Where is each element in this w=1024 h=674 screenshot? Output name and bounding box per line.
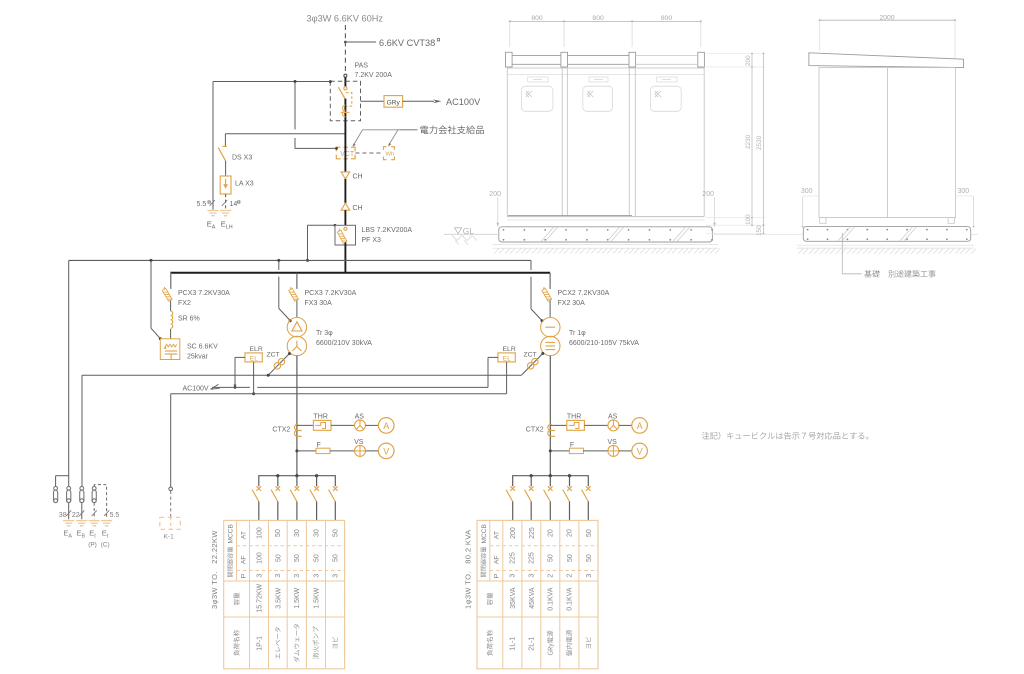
wire: to F R — [550, 450, 569, 452]
wire: to F L — [297, 450, 316, 452]
svg-text:5.5: 5.5 — [110, 512, 120, 519]
leader arrow to Wh — [389, 130, 398, 144]
svg-text:MCCB: MCCB — [481, 523, 488, 543]
junction on header — [530, 474, 533, 477]
svg-text:3: 3 — [256, 574, 263, 578]
svg-text:3φ3W TO. 22.22KW: 3φ3W TO. 22.22KW — [210, 530, 219, 609]
junction dots on thin bus — [150, 259, 153, 262]
wire: breaker to panel table — [530, 502, 532, 521]
elevation side: sloped roof — [809, 53, 964, 68]
svg-text:800: 800 — [531, 15, 543, 22]
svg-text:3: 3 — [529, 574, 536, 578]
svg-text:3: 3 — [275, 574, 282, 578]
wire: line C left riser to K1 — [170, 394, 172, 487]
wire: Tr1 secondary riser — [549, 356, 551, 476]
wire: reactor to SC — [170, 329, 172, 339]
svg-text:100: 100 — [256, 552, 263, 564]
table row load names — [487, 630, 493, 656]
svg-text:225: 225 — [510, 552, 517, 564]
svg-text:AC100V: AC100V — [183, 385, 209, 392]
elevation front: right dimension column — [751, 54, 753, 226]
svg-text:SR 6%: SR 6% — [178, 316, 200, 323]
breaker MCCB 5 — [333, 486, 338, 491]
elevation front: top dimension 800x3 — [510, 20, 701, 22]
tick and label 14sq — [222, 200, 227, 206]
wire: breaker to panel table — [296, 502, 298, 521]
relay GRy box — [384, 96, 403, 108]
svg-text:1.5KW: 1.5KW — [294, 587, 301, 608]
wire: VS to V R — [619, 450, 632, 452]
elevation front: roof rail and lifting posts — [506, 52, 513, 67]
elevation side: cabinet body — [819, 68, 956, 218]
svg-text:LBS 7.2KV200A: LBS 7.2KV200A — [362, 227, 413, 234]
wire: breaker to panel table — [258, 502, 260, 521]
svg-text:PF X3: PF X3 — [362, 237, 382, 244]
table row capacity — [487, 593, 493, 606]
ground EtP — [89, 520, 100, 522]
svg-text:25kvar: 25kvar — [187, 353, 209, 360]
switch LBS box — [335, 225, 356, 245]
svg-text:K-1: K-1 — [164, 534, 175, 541]
wire: DS drop — [224, 134, 226, 147]
elevation front: GL line and marker — [444, 233, 499, 235]
svg-text:ZCT: ZCT — [524, 352, 537, 359]
svg-text:50: 50 — [275, 529, 282, 537]
svg-text:5.5: 5.5 — [197, 201, 207, 208]
svg-text:PAS: PAS — [355, 63, 369, 70]
wire: earth line A left riser to EB terminal — [81, 375, 83, 486]
svg-text:3: 3 — [332, 574, 339, 578]
wire: EA earth riser — [212, 82, 214, 210]
svg-text:SC 6.6KV: SC 6.6KV — [187, 344, 218, 351]
elevation front: door windows — [521, 86, 553, 111]
wire: VS to V L — [366, 450, 379, 452]
svg-text:3.5KW: 3.5KW — [275, 587, 282, 608]
transformer Tr 1phi secondary circle (3-wire) — [541, 336, 560, 355]
wire: SC second feed from thin bus — [150, 260, 152, 328]
wire: SC feeder from main bus — [170, 272, 172, 289]
wire: branch to spare terminal — [56, 475, 69, 477]
svg-text:A: A — [68, 533, 72, 539]
svg-text:2: 2 — [548, 574, 555, 578]
wire: LA earth (dashed) — [225, 194, 227, 210]
junction on header — [549, 474, 552, 477]
svg-text:LH: LH — [226, 224, 233, 230]
breaker MCCB 2 — [276, 486, 281, 491]
table header MCCB rating — [227, 547, 233, 577]
svg-text:FX3 30A: FX3 30A — [305, 300, 333, 307]
zct ZCT left — [278, 359, 284, 365]
fuse PCX3 FX2 — [161, 287, 172, 302]
svg-text:3φ3W 6.6KV 60Hz: 3φ3W 6.6KV 60Hz — [307, 14, 384, 24]
tick on EtC branch 5.5sq — [104, 510, 109, 516]
wire: F to VS L — [330, 450, 355, 452]
svg-text:1φ3W TO. 80.2 KVA: 1φ3W TO. 80.2 KVA — [463, 529, 472, 609]
ground ELH — [220, 210, 231, 212]
note: certification text — [702, 432, 869, 440]
svg-text:50: 50 — [313, 554, 320, 562]
svg-text:800: 800 — [661, 15, 673, 22]
junction at VCT input — [335, 147, 338, 150]
wire: DS to LA — [225, 161, 227, 176]
wire: DS branch line — [225, 133, 345, 135]
svg-text:6600/210V 30kVA: 6600/210V 30kVA — [316, 340, 372, 347]
svg-text:14: 14 — [230, 201, 238, 208]
junction on header — [295, 474, 298, 477]
svg-text:THR: THR — [314, 414, 328, 421]
svg-text:200: 200 — [745, 55, 752, 66]
wire: T3 to ground EB 22sq — [81, 503, 83, 520]
transformer Tr 3phi primary circle (delta) — [287, 318, 306, 337]
bus: main 6.6kV bus (thick) — [171, 272, 550, 274]
svg-text:(C): (C) — [101, 542, 110, 549]
capacitor SC 6.6KV 25kvar — [160, 339, 180, 360]
cable head CH (down) — [341, 172, 350, 179]
wire: ELR right bottom to K1 line — [506, 362, 508, 394]
wire: Tr1 fused feed from main bus — [549, 273, 551, 289]
svg-text:3: 3 — [294, 574, 301, 578]
svg-text:AT: AT — [240, 531, 247, 539]
svg-text:35KVA: 35KVA — [510, 587, 517, 609]
svg-text:A: A — [637, 421, 643, 431]
svg-text:MCCB: MCCB — [228, 523, 235, 543]
svg-text:225: 225 — [529, 527, 536, 539]
breaker MCCB 3 — [548, 486, 553, 491]
wire: incoming overhead line (dashed) — [344, 25, 346, 74]
svg-text:Wh: Wh — [386, 151, 395, 157]
junction on header — [276, 474, 279, 477]
svg-text:PCX3 7.2KV30A: PCX3 7.2KV30A — [178, 290, 230, 297]
svg-text:LA X3: LA X3 — [235, 181, 254, 188]
wire: breaker to panel table — [512, 502, 514, 521]
svg-text:7.2KV 200A: 7.2KV 200A — [355, 72, 393, 79]
transformer Tr 1phi primary circle — [541, 318, 560, 337]
svg-text:AT: AT — [494, 531, 501, 539]
wire: earth link from EA riser to PAS box — [213, 81, 330, 83]
ground EB (22sq) — [76, 520, 87, 522]
wire: MCCB header bus — [259, 476, 336, 487]
svg-text:2230: 2230 — [745, 134, 752, 149]
ground EtC (5.5sq) — [101, 520, 112, 522]
svg-text:200: 200 — [489, 191, 501, 198]
junction on earth link — [294, 80, 297, 83]
svg-text:1.5KW: 1.5KW — [313, 587, 320, 608]
svg-text:CTX2: CTX2 — [526, 427, 544, 434]
svg-text:50: 50 — [586, 554, 593, 562]
meter Wh box (dashed link) — [355, 152, 383, 154]
terminal T4 Et — [92, 486, 96, 490]
switch PAS blade — [338, 87, 345, 98]
wire: Tr3 fused feed from main bus — [296, 273, 298, 289]
svg-text:6600/210-105V 75kVA: 6600/210-105V 75kVA — [569, 340, 639, 347]
wire: Tr3 primary from thin bus (jumps thick bus) — [278, 260, 280, 270]
svg-text:2530: 2530 — [756, 135, 763, 150]
wire: THR to AS R — [584, 424, 608, 426]
svg-text:EL: EL — [503, 355, 511, 362]
svg-text:20: 20 — [548, 529, 555, 537]
table row load names — [233, 630, 239, 656]
meter V L — [378, 443, 394, 459]
svg-text:P: P — [240, 573, 247, 578]
panel table frame — [477, 520, 598, 668]
svg-text:CH: CH — [353, 174, 363, 181]
elevation side: foundation note leader — [841, 233, 843, 274]
svg-text:20: 20 — [567, 529, 574, 537]
switch PAS terminal circle — [344, 74, 347, 77]
switch LBS contact circle — [344, 227, 347, 230]
wire: Tr1 primary from thin bus (jumps thick bus) — [530, 260, 532, 270]
wire: Tr3 secondary riser — [296, 356, 298, 476]
svg-text:50: 50 — [275, 554, 282, 562]
wire: breaker drop — [549, 476, 551, 487]
wire: T2 to ground EA 38sq — [68, 503, 70, 520]
panel table frame — [224, 520, 345, 668]
arrester LA X3 — [220, 176, 231, 194]
wire: breaker drop — [277, 476, 279, 487]
meter A R — [632, 418, 648, 434]
wire: fuse to reactor — [170, 301, 172, 311]
svg-text:2L-1: 2L-1 — [529, 637, 536, 651]
svg-text:3: 3 — [586, 574, 593, 578]
svg-text:V: V — [637, 446, 643, 456]
zct earth connection left transformer — [288, 352, 291, 355]
zct earth connection right transformer — [541, 352, 544, 355]
junction voltage branch R — [549, 449, 552, 452]
svg-text:50: 50 — [294, 554, 301, 562]
svg-text:30: 30 — [294, 529, 301, 537]
wire: F to VS R — [583, 450, 608, 452]
wire: breaker to panel table — [277, 502, 279, 521]
svg-text:A: A — [212, 224, 216, 230]
wire: AC100V line B with source arrow — [211, 384, 220, 389]
wire: breaker to panel table — [587, 502, 589, 521]
svg-text:50: 50 — [548, 554, 555, 562]
svg-text:PCX3 7.2KV30A: PCX3 7.2KV30A — [305, 290, 357, 297]
enclosure: PAS dashed box — [330, 81, 360, 121]
svg-text:50: 50 — [567, 554, 574, 562]
svg-text:45KVA: 45KVA — [529, 587, 536, 609]
elevation side: base feet — [820, 218, 826, 224]
transformer VCT metering box — [336, 147, 355, 159]
junction voltage branch L — [295, 449, 298, 452]
node: service tap with CVT cable label — [344, 41, 347, 44]
elevation side: GL stubs — [971, 234, 978, 236]
svg-text:50: 50 — [332, 554, 339, 562]
terminal T1 — [54, 486, 58, 490]
zct ZCT right — [532, 358, 538, 364]
relay K-1 dashed box — [160, 517, 181, 529]
meter V R — [632, 443, 648, 459]
wire: MCCB header bus — [513, 476, 589, 487]
svg-text:6.6KV CVT38: 6.6KV CVT38 — [379, 38, 435, 48]
wire: breaker to panel table — [549, 502, 551, 521]
wire: AS to A R — [619, 424, 632, 426]
svg-text:THR: THR — [567, 414, 581, 421]
breaker MCCB 4 — [314, 486, 319, 491]
svg-text:CH: CH — [353, 205, 363, 212]
svg-text:30: 30 — [313, 529, 320, 537]
wire: K1 control line C — [171, 393, 507, 395]
svg-text:15.72KW: 15.72KW — [256, 583, 263, 612]
wire: THR to AS L — [331, 424, 355, 426]
svg-text:AC100V: AC100V — [446, 97, 481, 107]
breaker MCCB 1 — [510, 486, 515, 491]
svg-text:0.1KVA: 0.1KVA — [548, 587, 555, 611]
table row capacity — [233, 593, 239, 606]
wire: PAS top stub — [344, 77, 346, 87]
transformer Tr 3phi secondary circle (wye) — [287, 336, 306, 355]
svg-text:100: 100 — [745, 214, 752, 225]
svg-text:A: A — [383, 421, 389, 431]
svg-text:0.1KVA: 0.1KVA — [567, 587, 574, 611]
reactor SR 6% — [171, 311, 173, 328]
coil: PAS SOG trip coil — [343, 105, 346, 117]
ground EA — [207, 210, 218, 212]
svg-text:225: 225 — [529, 552, 536, 564]
svg-text:50: 50 — [586, 529, 593, 537]
svg-text:3: 3 — [313, 574, 320, 578]
wire: LBS earth link to bus — [308, 224, 336, 226]
svg-text:1P-1: 1P-1 — [256, 636, 263, 651]
elevation front: cabinet body — [507, 68, 704, 217]
svg-text:EL: EL — [250, 355, 258, 362]
svg-text:ZCT: ZCT — [267, 352, 280, 359]
label: power company supplied items (leader) — [400, 129, 418, 131]
wire: breaker to panel table — [316, 502, 318, 521]
svg-text:CTX2: CTX2 — [272, 427, 290, 434]
terminal T3 EB — [80, 486, 84, 490]
svg-text:2000: 2000 — [879, 14, 894, 21]
svg-text:200: 200 — [510, 527, 517, 539]
ground EA (38sq) — [63, 520, 74, 522]
wire: GRy to AC100V with arrow — [403, 100, 434, 102]
fuse PF inside LBS — [336, 228, 347, 243]
fuse PCX3 FX3 30A — [288, 287, 299, 302]
junction on header — [315, 474, 318, 477]
svg-text:FX2: FX2 — [178, 300, 191, 307]
contactor K-1 terminal circle — [169, 487, 173, 491]
breaker MCCB 3 — [295, 486, 300, 491]
cable head CH (up) — [341, 203, 350, 210]
svg-text:Tr 1φ: Tr 1φ — [569, 330, 586, 337]
svg-text:AF: AF — [240, 555, 247, 564]
wire: breaker drop — [530, 476, 532, 487]
ct CTX2 L — [294, 424, 301, 430]
svg-text:3: 3 — [510, 574, 517, 578]
wire: drop to VCT (jumps DS line) — [294, 82, 296, 130]
wire: to THR R — [550, 424, 567, 426]
svg-text:GL: GL — [463, 226, 474, 236]
svg-text:ELR: ELR — [503, 346, 516, 353]
switch PAS auxiliary dashed contact box — [346, 93, 352, 107]
svg-text:150: 150 — [756, 225, 763, 236]
breaker MCCB 1 — [257, 486, 262, 491]
wire: AS to A L — [366, 424, 379, 426]
wire: to THR L — [297, 424, 314, 426]
wire: main riser above CH — [344, 121, 346, 172]
elevation side: top dimension 2000 — [820, 19, 955, 21]
meter A L — [378, 418, 394, 434]
svg-text:200: 200 — [702, 191, 714, 198]
svg-text:(P): (P) — [88, 542, 97, 549]
tick and label 5.5sq — [210, 200, 215, 206]
svg-text:2: 2 — [567, 574, 574, 578]
wire: thin bus left riser to EA terminal — [68, 260, 70, 486]
elevation front: foundation slab — [499, 227, 713, 242]
switch PAS contact circle — [344, 87, 347, 90]
wire: breaker drop — [569, 476, 571, 487]
switch DS X3 — [222, 145, 227, 147]
wire: to LBS — [344, 210, 346, 225]
terminal T2 EA — [67, 486, 71, 490]
svg-text:22: 22 — [72, 512, 80, 519]
svg-text:P: P — [494, 573, 501, 578]
junction on header — [568, 474, 571, 477]
elevation side: foundation slab — [803, 227, 970, 242]
svg-text:38: 38 — [59, 512, 67, 519]
svg-text:1L-1: 1L-1 — [510, 637, 517, 651]
wire: breaker drop — [296, 476, 298, 487]
svg-text:PCX2 7.2KV30A: PCX2 7.2KV30A — [558, 290, 610, 297]
breaker MCCB 5 — [586, 486, 591, 491]
table header MCCB rating — [481, 547, 487, 577]
ct CTX2 R — [548, 424, 555, 430]
breaker MCCB 4 — [567, 486, 572, 491]
bus: upper thin earth bus — [69, 259, 531, 261]
wire: breaker to panel table — [569, 502, 571, 521]
wire: breaker to panel table — [334, 502, 336, 521]
fuse PCX2 FX2 30A — [541, 287, 552, 302]
leader arrow to VCT — [363, 129, 418, 131]
wire: GRy control line — [361, 100, 385, 102]
wire: PAS mid — [344, 99, 346, 121]
wire: T4 dashed branch to EtC ground — [94, 485, 106, 520]
wire: ELR bottom to K1 line — [253, 362, 255, 394]
svg-text:AF: AF — [494, 555, 501, 564]
svg-text:FX2 30A: FX2 30A — [558, 300, 586, 307]
svg-text:ELR: ELR — [250, 346, 263, 353]
svg-text:VCT: VCT — [340, 151, 355, 158]
elevation side: sub-base and soil hatch — [797, 244, 974, 246]
svg-text:GRy: GRy — [387, 99, 401, 106]
wire: earth line A to ZCTs — [82, 374, 522, 376]
svg-text:300: 300 — [958, 188, 970, 195]
wire: ELR right to AC100V line — [488, 356, 498, 358]
svg-text:50: 50 — [332, 529, 339, 537]
elevation front: sub-base and soil hatch — [493, 244, 718, 246]
wire: dashed to K-1 — [170, 491, 172, 517]
elevation front: name plates — [528, 77, 549, 82]
elevation front: base frame — [507, 216, 704, 218]
svg-text:800: 800 — [592, 15, 604, 22]
svg-text:100: 100 — [256, 527, 263, 539]
svg-text:V: V — [383, 446, 389, 456]
wire: breaker drop — [316, 476, 318, 487]
junction: PAS box earth corner — [329, 80, 332, 83]
svg-text:DS X3: DS X3 — [232, 155, 252, 162]
svg-text:Tr 3φ: Tr 3φ — [316, 330, 333, 337]
breaker MCCB 2 — [529, 486, 534, 491]
wire: LBS to main bus — [344, 242, 346, 272]
svg-text:300: 300 — [801, 188, 813, 195]
wire: between cable heads — [344, 179, 346, 203]
svg-text:B: B — [82, 533, 86, 539]
wire: ELR left to AC100V line — [235, 356, 245, 358]
wire: T4 to ground EtP dashed — [93, 503, 95, 520]
